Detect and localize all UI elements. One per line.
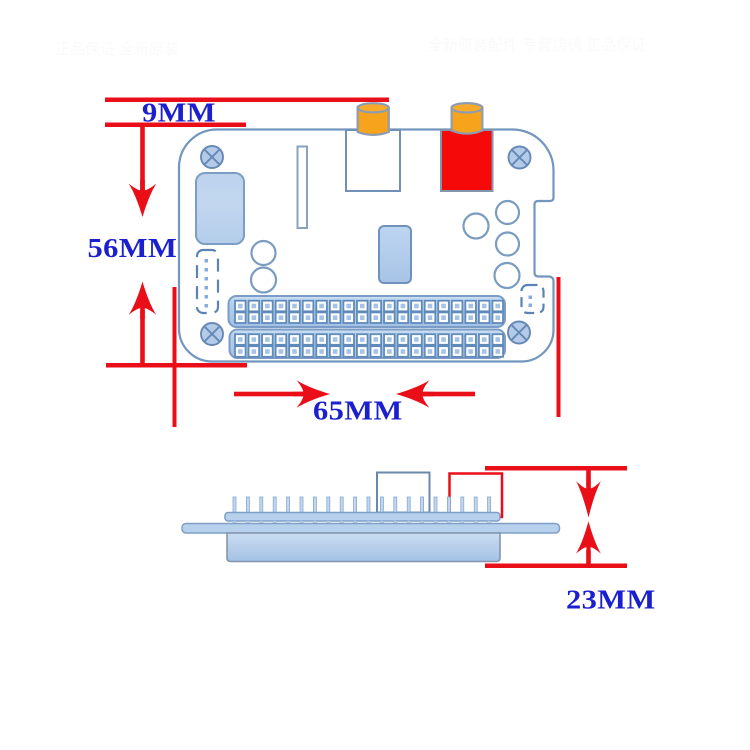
svg-text:全新原装配件 专营店铺 正品保证: 全新原装配件 专营店铺 正品保证 [428, 36, 646, 54]
svg-text:23MM: 23MM [566, 585, 656, 615]
svg-text:9MM: 9MM [142, 98, 216, 128]
svg-text:正品保证 全新原装: 正品保证 全新原装 [55, 40, 179, 58]
svg-text:65MM: 65MM [313, 396, 403, 426]
svg-text:56MM: 56MM [88, 233, 178, 263]
